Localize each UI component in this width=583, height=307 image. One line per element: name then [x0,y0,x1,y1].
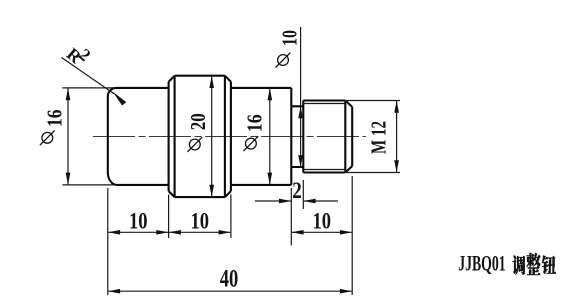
title text 调整钮 (drawn strokes) [512,253,555,276]
thread minor diameter thin lines [303,104,345,170]
dimension Ø16 left: extension lines [62,88,114,185]
svg-text:2: 2 [292,178,302,203]
bottom extension lines [108,176,352,295]
label Ø16 right: diameter symbol [244,136,259,151]
svg-text:10: 10 [191,209,210,234]
svg-text:10: 10 [312,209,331,234]
svg-text:16: 16 [42,110,66,128]
radius leader R2: line [62,58,115,94]
dimension 10 first: dimension line with arrows [108,231,168,233]
svg-text:10: 10 [129,209,148,234]
label Ø16 left: diameter symbol [40,130,55,145]
svg-text:M 12: M 12 [367,121,391,154]
cylinder segment 1 body Ø16 outline [108,88,169,185]
svg-text:JJBQ01: JJBQ01 [458,251,506,276]
relief groove neck Ø10 outline [291,106,303,167]
dimension Ø10: dimension line with arrows [300,27,302,106]
dimension 2: left leader with arrow [255,200,291,202]
dimension 10 second: dimension line with arrows [169,231,230,233]
svg-text:16: 16 [243,114,267,132]
dimension 10 third: dimension line with arrows [292,231,352,233]
svg-text:40: 40 [220,266,239,293]
cylinder segment 2 body Ø20 outline with chamfers [169,76,231,197]
radius leader R2: solid arrow [113,92,127,106]
label Ø20: diameter symbol [187,137,202,152]
dimension M12: dimension line with arrows [396,101,398,172]
dimension 2: right leader with arrow [304,200,338,202]
svg-text:10: 10 [278,30,302,46]
dimension Ø16 left: dimension line with arrows [67,88,69,184]
threaded section M12 outline with end chamfer [303,101,352,173]
dimension Ø16 right: dimension line with arrows [269,88,271,184]
dimension M12: extension lines [346,101,400,173]
label Ø10 top: diameter symbol [276,53,291,68]
dimension Ø20: dimension line with arrows [211,76,213,196]
cylinder segment 3 body Ø16 outline [231,88,291,185]
centerline [93,136,366,138]
svg-text:20: 20 [186,113,210,130]
dimension 40: dimension line with arrows [108,290,351,292]
